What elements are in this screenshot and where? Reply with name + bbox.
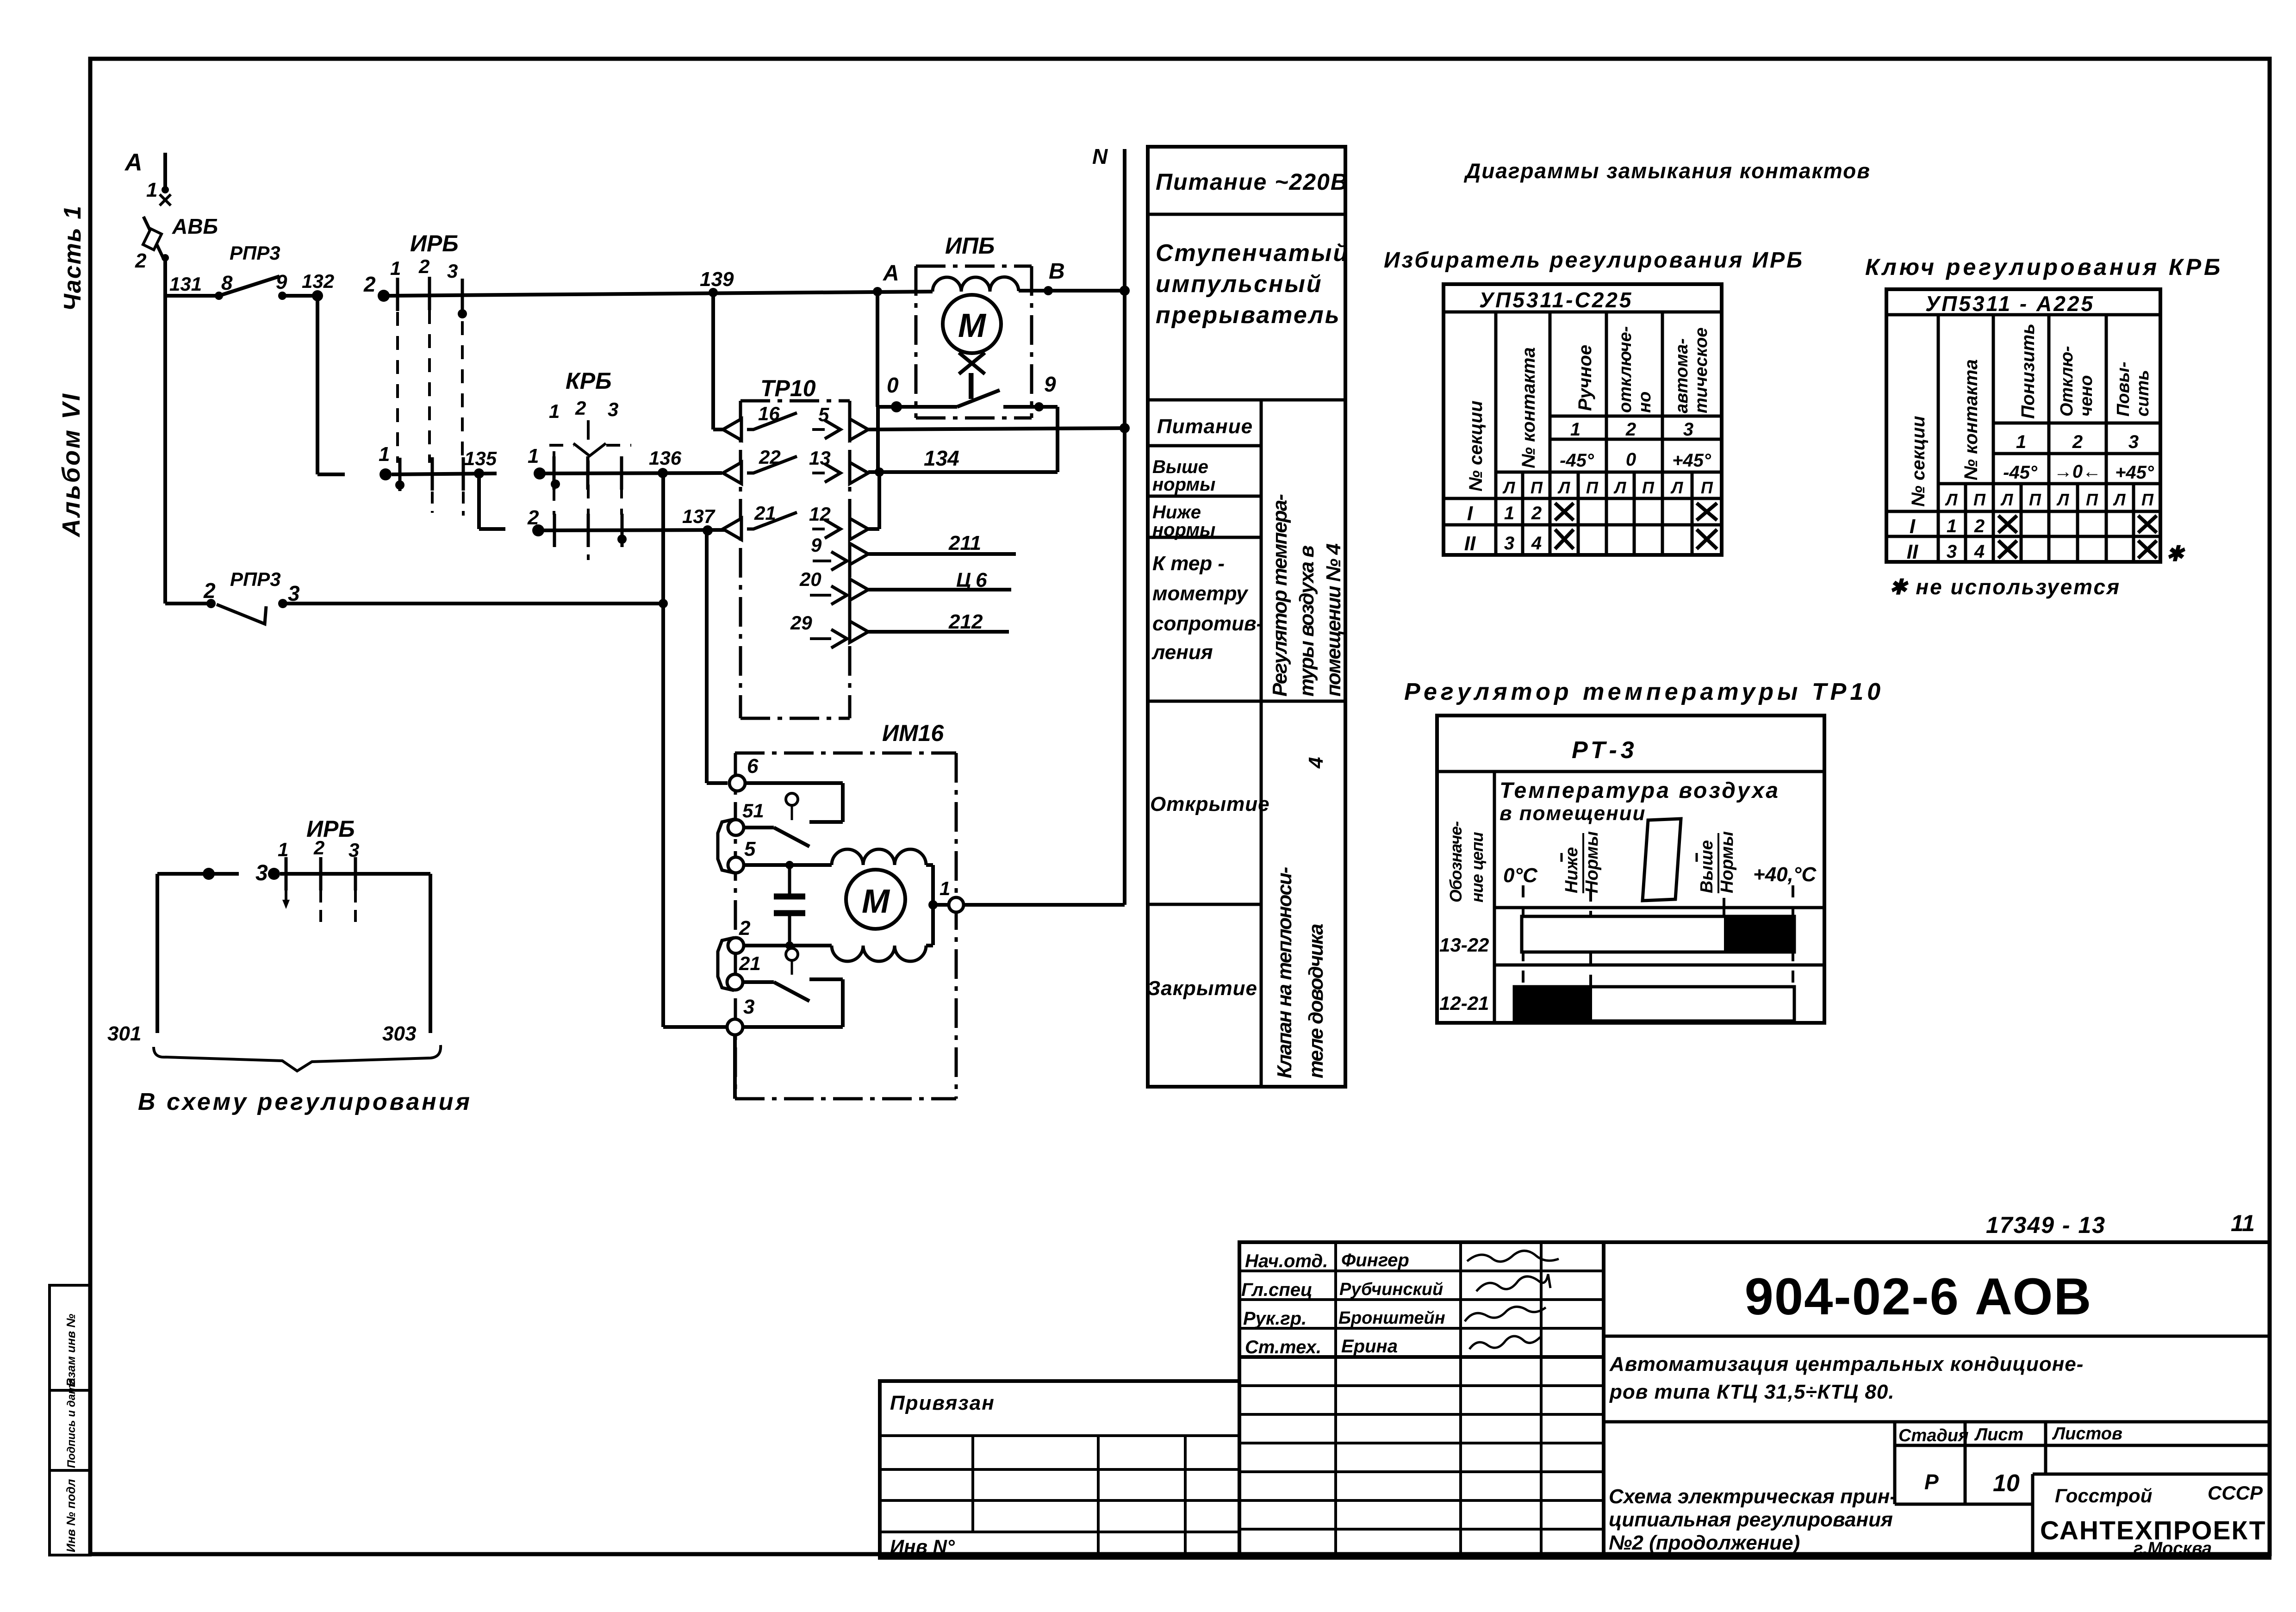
- svg-text:2: 2: [1531, 503, 1542, 523]
- svg-text:отключе-: отключе-: [1616, 326, 1635, 413]
- svg-text:0°С: 0°С: [1503, 864, 1538, 887]
- IM16 linkage brackets: [718, 819, 734, 873]
- svg-text:туры воздуха в: туры воздуха в: [1295, 546, 1318, 697]
- svg-text:131: 131: [169, 273, 202, 295]
- svg-text:5: 5: [744, 838, 756, 860]
- svg-text:Инв № подл: Инв № подл: [64, 1479, 78, 1552]
- TR10 contact 21-12: [723, 518, 741, 540]
- svg-text:212: 212: [948, 610, 983, 633]
- svg-text:ИПБ: ИПБ: [945, 233, 995, 259]
- svg-text:I: I: [1467, 502, 1473, 525]
- svg-text:П: П: [1586, 478, 1599, 497]
- legend table column: [1148, 147, 1345, 1087]
- svg-text:N: N: [1092, 144, 1108, 168]
- svg-text:1: 1: [2016, 432, 2026, 452]
- TR10 contact 22-13: [723, 462, 741, 484]
- svg-text:ления: ления: [1151, 641, 1213, 664]
- IRB-2 contact row: [280, 872, 430, 876]
- svg-text:Госстрой: Госстрой: [2055, 1485, 2152, 1506]
- svg-text:помещении № 4: помещении № 4: [1322, 544, 1345, 697]
- svg-text:П: П: [2141, 490, 2154, 509]
- svg-text:автома-: автома-: [1672, 338, 1692, 413]
- riser 134-row to contact 12: [877, 472, 881, 529]
- svg-text:П: П: [1531, 478, 1543, 497]
- svg-text:ИМ16: ИМ16: [882, 720, 944, 746]
- svg-text:СССР: СССР: [2208, 1482, 2263, 1504]
- svg-text:№ контакта: № контакта: [1961, 359, 1981, 480]
- svg-text:1: 1: [379, 443, 390, 466]
- svg-text:Питание: Питание: [1157, 415, 1253, 438]
- svg-text:+40,°С: +40,°С: [1753, 863, 1817, 886]
- svg-text:0: 0: [887, 373, 899, 397]
- svg-text:2: 2: [363, 272, 376, 296]
- table UP5311-A225: [1886, 289, 2160, 562]
- svg-text:✱: ✱: [2166, 541, 2185, 566]
- svg-text:Температура воздуха: Температура воздуха: [1500, 778, 1780, 803]
- svg-text:нормы: нормы: [1152, 520, 1215, 540]
- title block: privyazan block: [880, 1381, 1239, 1558]
- svg-text:Привязан: Привязан: [890, 1392, 995, 1414]
- svg-text:К тер -: К тер -: [1152, 552, 1225, 575]
- svg-text:импульсный: импульсный: [1156, 271, 1323, 298]
- svg-text:ТР10: ТР10: [760, 375, 816, 401]
- svg-text:в помещении: в помещении: [1500, 802, 1646, 825]
- brace: [154, 1045, 441, 1071]
- IPB winding (coil humps): [933, 277, 1019, 292]
- svg-text:139: 139: [700, 268, 734, 291]
- svg-text:Закрытие: Закрытие: [1147, 977, 1257, 1000]
- svg-text:М: М: [862, 883, 890, 920]
- svg-text:3: 3: [1504, 533, 1514, 554]
- svg-text:КРБ: КРБ: [566, 368, 612, 394]
- IM16 motor M: [846, 870, 905, 929]
- svg-text:Схема электрическая прин-: Схема электрическая прин-: [1609, 1485, 1897, 1508]
- svg-text:4: 4: [1974, 541, 1985, 562]
- svg-text:Нач.отд.: Нач.отд.: [1245, 1251, 1328, 1271]
- svg-text:П: П: [2086, 490, 2098, 509]
- svg-text:Открытие: Открытие: [1150, 793, 1270, 815]
- svg-text:Рук.гр.: Рук.гр.: [1243, 1308, 1307, 1329]
- svg-text:№2 (продолжение): №2 (продолжение): [1609, 1531, 1800, 1554]
- svg-text:II: II: [1907, 541, 1918, 563]
- svg-text:20: 20: [799, 568, 821, 590]
- svg-text:→0←: →0←: [2054, 461, 2101, 482]
- svg-text:Ключ регулирования КРБ: Ключ регулирования КРБ: [1865, 254, 2223, 280]
- svg-text:1: 1: [278, 839, 288, 860]
- main wire L to N: [389, 292, 933, 296]
- title block: rows under approvals: [1239, 1384, 1604, 1387]
- svg-text:В схему регулирования: В схему регулирования: [138, 1089, 472, 1115]
- svg-text:2: 2: [203, 579, 216, 603]
- left margin revision column: [50, 1285, 90, 1555]
- svg-text:Листов: Листов: [2052, 1424, 2122, 1444]
- svg-text:2: 2: [313, 837, 324, 859]
- svg-text:-45°: -45°: [1560, 450, 1594, 471]
- svg-text:0: 0: [1626, 449, 1636, 470]
- svg-text:13-22: 13-22: [1439, 934, 1489, 956]
- wire RPR3-3 to IM16 terminal 3 riser: [283, 602, 663, 605]
- IM16 terminal circles: [729, 775, 745, 791]
- svg-text:№ секции: № секции: [1466, 401, 1486, 492]
- node 132 junction: [312, 290, 323, 301]
- svg-text:Л: Л: [1613, 478, 1627, 497]
- svg-text:Ступенчатый: Ступенчатый: [1156, 240, 1349, 267]
- svg-text:№ контакта: № контакта: [1518, 347, 1539, 468]
- svg-text:4: 4: [1305, 757, 1327, 769]
- TR10 contact 16-5: [723, 419, 741, 440]
- svg-text:Гл.спец: Гл.спец: [1241, 1280, 1313, 1300]
- setpoint parallelogram: [1643, 819, 1681, 901]
- svg-text:9: 9: [276, 271, 287, 293]
- svg-text:№ секции: № секции: [1908, 416, 1929, 507]
- IM16 wiring from terminal 6: [743, 781, 843, 785]
- svg-text:3: 3: [743, 996, 754, 1018]
- IM16 switch 21: [742, 980, 774, 984]
- svg-text:П: П: [1642, 478, 1655, 497]
- organization: [2031, 1474, 2035, 1558]
- svg-text:29: 29: [790, 612, 812, 634]
- svg-text:211: 211: [948, 532, 981, 554]
- vertical A-node to 134 node: [876, 407, 880, 472]
- svg-text:1: 1: [1504, 503, 1514, 523]
- svg-text:Отклю-: Отклю-: [2057, 346, 2077, 417]
- IM16 terminal 1: [928, 900, 938, 909]
- svg-text:Ст.тех.: Ст.тех.: [1245, 1337, 1321, 1357]
- IM16 capacitor: [788, 865, 791, 894]
- svg-text:1: 1: [528, 445, 539, 467]
- svg-text:134: 134: [924, 446, 959, 470]
- svg-text:А: А: [883, 261, 899, 286]
- wire 5-row to N: [868, 428, 1125, 429]
- svg-text:УП5311-С225: УП5311-С225: [1479, 288, 1633, 312]
- svg-text:ние цепи: ние цепи: [1468, 832, 1487, 902]
- wire from AVB down to node 131: [163, 258, 167, 604]
- svg-text:РТ-3: РТ-3: [1572, 737, 1638, 764]
- svg-text:чено: чено: [2077, 375, 2096, 417]
- svg-text:1: 1: [549, 400, 560, 422]
- title block: approvals table: [1239, 1242, 1604, 1357]
- svg-text:✱ не используется: ✱ не используется: [1889, 575, 2121, 599]
- arrow below tick 1: [285, 890, 287, 902]
- svg-text:Ерина: Ерина: [1341, 1336, 1398, 1357]
- svg-text:3: 3: [255, 861, 268, 885]
- svg-text:2: 2: [739, 917, 751, 940]
- svg-text:Питание ~220В: Питание ~220В: [1156, 169, 1348, 195]
- svg-text:Лист: Лист: [1974, 1425, 2023, 1444]
- svg-text:РПР3: РПР3: [230, 242, 280, 264]
- IPB centrifugal switch 0-9: [957, 390, 1000, 407]
- svg-text:П: П: [1973, 490, 1986, 509]
- svg-text:12-21: 12-21: [1439, 992, 1489, 1014]
- svg-text:9: 9: [1044, 372, 1056, 396]
- svg-text:сопротив-: сопротив-: [1152, 612, 1263, 635]
- IM16 wire 5 to motor winding: [743, 863, 832, 867]
- svg-text:Нормы: Нормы: [1717, 831, 1737, 893]
- svg-text:301: 301: [107, 1022, 141, 1045]
- svg-text:-45°: -45°: [2003, 462, 2038, 483]
- IM16 wire 3: [742, 1025, 843, 1029]
- svg-text:303: 303: [382, 1022, 416, 1045]
- svg-text:3: 3: [1683, 419, 1693, 440]
- table RT-3: [1437, 716, 1824, 1023]
- svg-text:Регулятор темпера-: Регулятор темпера-: [1269, 494, 1291, 697]
- svg-text:3: 3: [608, 398, 618, 420]
- svg-text:Диаграммы замыкания контак: Диаграммы замыкания контактов: [1463, 159, 1871, 183]
- svg-text:Повы-: Повы-: [2114, 361, 2133, 417]
- svg-text:АВБ: АВБ: [172, 214, 218, 238]
- svg-text:Подпись и дата: Подпись и дата: [65, 1378, 78, 1468]
- svg-text:3: 3: [447, 260, 458, 282]
- svg-text:1: 1: [390, 257, 401, 279]
- wire 134: [868, 470, 1058, 474]
- svg-text:3: 3: [2128, 432, 2139, 452]
- svg-text:Л: Л: [1502, 478, 1516, 497]
- svg-text:П: П: [1701, 478, 1713, 497]
- svg-text:ципиальная регулирования: ципиальная регулирования: [1609, 1508, 1893, 1531]
- riser node136 down to IM16 terminal 3: [661, 473, 665, 1027]
- svg-text:1: 1: [1570, 419, 1580, 440]
- svg-text:+45°: +45°: [2115, 462, 2154, 483]
- svg-text:А: А: [124, 149, 143, 176]
- svg-text:21: 21: [739, 952, 761, 974]
- right corner down wire 303: [429, 874, 432, 1033]
- svg-text:135: 135: [464, 448, 497, 469]
- svg-text:Избиратель регулирования ИРБ: Избиратель регулирования ИРБ: [1384, 248, 1804, 273]
- svg-text:2: 2: [1974, 516, 1985, 536]
- IM16 switch 51: [743, 826, 774, 829]
- circuit breaker AVB: [160, 194, 171, 205]
- svg-text:1: 1: [146, 179, 157, 201]
- stage/sheet cells: [1893, 1422, 1897, 1504]
- svg-text:136: 136: [649, 447, 682, 469]
- svg-text:Обозначе-: Обозначе-: [1446, 822, 1465, 902]
- svg-text:Регулятор температуры ТР10: Регулятор температуры ТР10: [1404, 678, 1884, 705]
- svg-text:теле доводчика: теле доводчика: [1305, 924, 1327, 1078]
- svg-text:Ц6: Ц6: [956, 569, 992, 591]
- svg-text:мометру: мометру: [1152, 582, 1249, 605]
- svg-text:В: В: [1049, 259, 1065, 284]
- svg-text:Бронштейн: Бронштейн: [1338, 1308, 1445, 1328]
- svg-text:2: 2: [2072, 432, 2083, 452]
- svg-text:I: I: [1910, 515, 1916, 538]
- IRB linkage dashed lines: [396, 312, 399, 463]
- svg-text:Л: Л: [2056, 490, 2070, 509]
- svg-text:132: 132: [302, 270, 334, 292]
- svg-text:УП5311 - А225: УП5311 - А225: [1925, 292, 2095, 316]
- svg-text:Взам инв №: Взам инв №: [64, 1314, 78, 1387]
- svg-text:сить: сить: [2133, 370, 2153, 417]
- svg-text:Фингер: Фингер: [1341, 1250, 1409, 1270]
- signatures: [1467, 1251, 1559, 1261]
- svg-text:Р: Р: [1924, 1470, 1939, 1494]
- svg-text:1: 1: [940, 878, 950, 899]
- svg-text:Нормы: Нормы: [1582, 831, 1602, 893]
- svg-text:8: 8: [221, 272, 233, 294]
- svg-text:П: П: [2029, 490, 2041, 509]
- svg-text:ров типа КТЦ 31,5÷КТЦ 80.: ров типа КТЦ 31,5÷КТЦ 80.: [1609, 1381, 1895, 1403]
- svg-text:1: 1: [1947, 516, 1957, 536]
- svg-text:2: 2: [1625, 419, 1636, 440]
- svg-text:51: 51: [742, 800, 764, 822]
- svg-text:10: 10: [1993, 1470, 2020, 1497]
- svg-text:Автоматизация центральных ко: Автоматизация центральных кондиционе-: [1609, 1353, 2084, 1375]
- svg-text:Л: Л: [1557, 478, 1571, 497]
- svg-text:прерыватель: прерыватель: [1156, 302, 1341, 329]
- svg-text:ИРБ: ИРБ: [410, 230, 459, 256]
- title block: main right section: [1604, 1242, 2270, 1558]
- svg-text:Л: Л: [2000, 490, 2014, 509]
- table UP5311-C225: [1444, 284, 1722, 555]
- svg-text:Выше: Выше: [1697, 840, 1717, 893]
- IM16 wire 2 and lower winding: [743, 944, 832, 947]
- svg-text:Л: Л: [1670, 478, 1684, 497]
- svg-text:нормы: нормы: [1152, 474, 1215, 495]
- svg-text:РПР3: РПР3: [230, 568, 281, 590]
- svg-text:но: но: [1635, 392, 1655, 413]
- svg-text:Л: Л: [2113, 490, 2126, 509]
- svg-text:Ручное: Ручное: [1575, 345, 1595, 411]
- scale tick lines: [1522, 885, 1524, 1021]
- svg-text:2: 2: [575, 397, 586, 419]
- svg-text:Рубчинский: Рубчинский: [1339, 1280, 1443, 1299]
- svg-text:г.Москва: г.Москва: [2134, 1539, 2212, 1558]
- svg-text:904-02-6 АОВ: 904-02-6 АОВ: [1745, 1268, 2092, 1326]
- IPB motor M: [943, 295, 1001, 353]
- svg-text:Клапан на теплоноси-: Клапан на теплоноси-: [1273, 867, 1296, 1078]
- svg-text:Часть 1: Часть 1: [59, 205, 86, 311]
- svg-text:2: 2: [135, 249, 147, 272]
- svg-text:11: 11: [2231, 1210, 2255, 1236]
- svg-text:Ниже: Ниже: [1562, 847, 1581, 893]
- svg-text:3: 3: [1947, 541, 1957, 562]
- svg-text:4: 4: [1531, 533, 1542, 554]
- svg-text:Инв N°: Инв N°: [890, 1536, 955, 1557]
- svg-text:М: М: [958, 307, 987, 344]
- svg-text:Понизить: Понизить: [2018, 324, 2038, 419]
- KRB linkage dashed bar with chevron: [549, 444, 574, 447]
- svg-text:6: 6: [747, 755, 759, 778]
- relay contact RPR3 (8-9): [215, 292, 223, 300]
- svg-text:Альбом VI: Альбом VI: [57, 392, 85, 538]
- svg-text:17349 - 13: 17349 - 13: [1986, 1212, 2106, 1238]
- svg-text:Л: Л: [1945, 490, 1958, 509]
- svg-text:137: 137: [682, 505, 716, 527]
- left hook wire 301: [203, 868, 215, 880]
- svg-text:2: 2: [418, 255, 429, 277]
- svg-text:II: II: [1464, 532, 1476, 555]
- riser node137 to IM16 terminal 6: [705, 530, 709, 783]
- svg-text:9: 9: [811, 534, 822, 556]
- svg-text:Стадия: Стадия: [1898, 1426, 1968, 1445]
- IPB interrupter symbol: [959, 353, 985, 374]
- svg-text:тическое: тическое: [1692, 328, 1711, 414]
- svg-text:+45°: +45°: [1672, 450, 1711, 471]
